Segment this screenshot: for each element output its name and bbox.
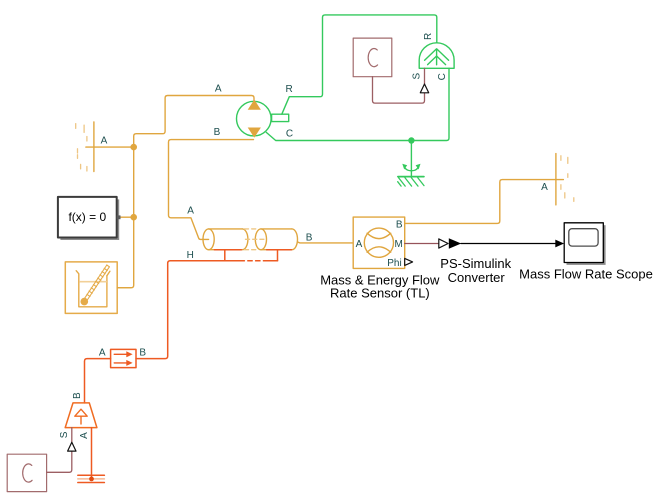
reservoir R1: left thermal liquid reservoir: [93, 122, 95, 172]
labels: port names: [59, 33, 548, 439]
pipe P1: dashed couplings: [245, 229, 267, 250]
properties B1: thermometer: [83, 265, 109, 303]
port arrow: sensor Phi output triangle: [405, 258, 413, 265]
pipe P1: cylinder 2: [255, 229, 297, 250]
wire: H line down to valve block port B: [136, 261, 170, 359]
ground: thermal liquid absolute reference: [78, 475, 105, 482]
svg-text:A: A: [79, 432, 90, 439]
wire: junction to rotational ground: [410, 141, 412, 177]
wire C: pump case to source case: [266, 68, 449, 140]
svg-text:Phi: Phi: [387, 258, 401, 269]
wire: flow source port A to thermal liquid reference: [91, 428, 93, 479]
svg-text:f(x) = 0: f(x) = 0: [68, 210, 106, 224]
constant C1: C glyph: [368, 49, 377, 67]
reservoir R2: right thermal liquid reservoir: [555, 154, 557, 205]
pump P: bottom flow triangle: [248, 128, 261, 138]
port arrow: PS input triangle on source S: [420, 84, 428, 93]
svg-text:B: B: [306, 232, 313, 243]
svg-text:Rate Sensor (TL): Rate Sensor (TL): [330, 286, 430, 301]
svg-text:A: A: [541, 182, 548, 193]
sensor S1: mass and energy flow rate sensor body: [353, 217, 405, 268]
scope: mass flow rate scope block: [567, 225, 606, 265]
pump P: shaft: [272, 114, 289, 121]
node: rotational junction: [408, 137, 414, 143]
wire: simulink signal to scope: [461, 243, 556, 245]
svg-text:PS-Simulink: PS-Simulink: [440, 256, 511, 271]
svg-text:S: S: [59, 431, 70, 438]
svg-text:B: B: [214, 127, 221, 138]
wire: main vertical branch to solver and properties: [117, 147, 133, 288]
wire: pump port B down to pipe port A: [169, 140, 254, 240]
svg-text:S: S: [411, 73, 422, 80]
pipe P1: cylinder 1: [203, 229, 248, 250]
wire: junction up to pump port A: [134, 96, 254, 148]
wire: pipe port B to sensor port A: [298, 241, 354, 244]
node: junction dot at solver: [130, 214, 137, 221]
svg-text:B: B: [396, 220, 403, 231]
svg-text:C: C: [286, 129, 293, 140]
wire: sensor port B to right reservoir: [405, 180, 564, 224]
valve V1: A to B restriction block: [111, 349, 136, 367]
labels: block names: [320, 256, 653, 301]
wire: valve port A to flow source port B: [85, 359, 111, 403]
solver F1: f(x)=0 solver configuration block: [60, 199, 119, 240]
svg-text:A: A: [215, 84, 222, 95]
converter U3: PS-Simulink converter icon: [439, 239, 448, 248]
wire: reservoir R1 port A to junction: [86, 146, 134, 148]
svg-text:Mass Flow Rate Scope: Mass Flow Rate Scope: [519, 266, 653, 281]
wire: properties block to network: [117, 287, 131, 289]
svg-text:Converter: Converter: [448, 270, 506, 285]
svg-text:R: R: [285, 84, 292, 95]
properties B1: thermal liquid settings block: [65, 262, 117, 314]
svg-text:B: B: [139, 347, 146, 358]
source U2: controlled mass flow rate source trapezoid: [65, 403, 97, 428]
wire: solver stub: [120, 216, 133, 218]
constant C2: PS constant block bottom: [7, 454, 46, 491]
svg-text:B: B: [72, 392, 83, 399]
constant C2: C glyph: [23, 464, 32, 482]
wire S: constant to source signal: [373, 77, 425, 103]
wire: sensor port M physical signal: [405, 243, 439, 245]
svg-text:R: R: [423, 33, 434, 40]
source U1: ideal angular velocity source dome: [419, 43, 454, 69]
svg-text:H: H: [187, 250, 194, 261]
svg-text:A: A: [99, 347, 106, 358]
pump P: top flow triangle: [248, 100, 261, 110]
constant C1: PS constant block top: [353, 38, 392, 77]
wire S: constant C2 to flow source signal: [47, 451, 72, 472]
pipe P1: thermal port H lines: [170, 250, 291, 261]
svg-text:A: A: [101, 136, 108, 147]
wire R: pump shaft to angular velocity source top loop: [282, 15, 437, 114]
node: junction dot upper: [130, 144, 137, 151]
svg-text:A: A: [356, 239, 363, 250]
svg-text:M: M: [395, 239, 403, 250]
pump P: circle body: [237, 101, 272, 136]
port arrow: PS input triangle on source U2: [68, 442, 76, 451]
svg-text:A: A: [187, 206, 194, 217]
ground: mechanical rotational reference: [398, 164, 424, 186]
svg-text:C: C: [437, 73, 448, 80]
